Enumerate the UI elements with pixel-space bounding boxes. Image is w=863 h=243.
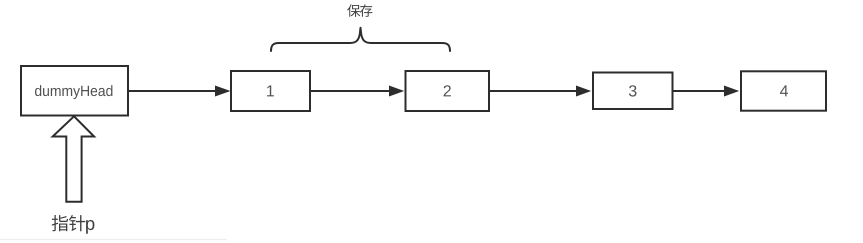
faint crop line at bottom left [0,239,227,240]
label 保存 (save) above brace [347,4,372,17]
label 3 [629,85,637,96]
wire arrow node 1 to node 2 [311,90,390,92]
label dummyHead [35,85,112,99]
node 1 [231,71,310,111]
node 4 [741,71,826,110]
pointer p block arrow below dummyHead [53,116,94,202]
label 指针p (pointer p) [52,215,95,234]
label 4 [780,85,788,96]
label 1 [267,85,274,96]
wire arrow dummyHead to node 1 [129,90,216,92]
label 2 [444,85,451,96]
wire arrow node 3 to node 4 [674,90,726,92]
node dummyHead [21,66,128,116]
node 3 [593,73,673,110]
wire arrow node 2 to node 3 [490,90,577,92]
node 2 [406,71,490,111]
brace spanning nodes 1 and 2 [271,28,450,51]
